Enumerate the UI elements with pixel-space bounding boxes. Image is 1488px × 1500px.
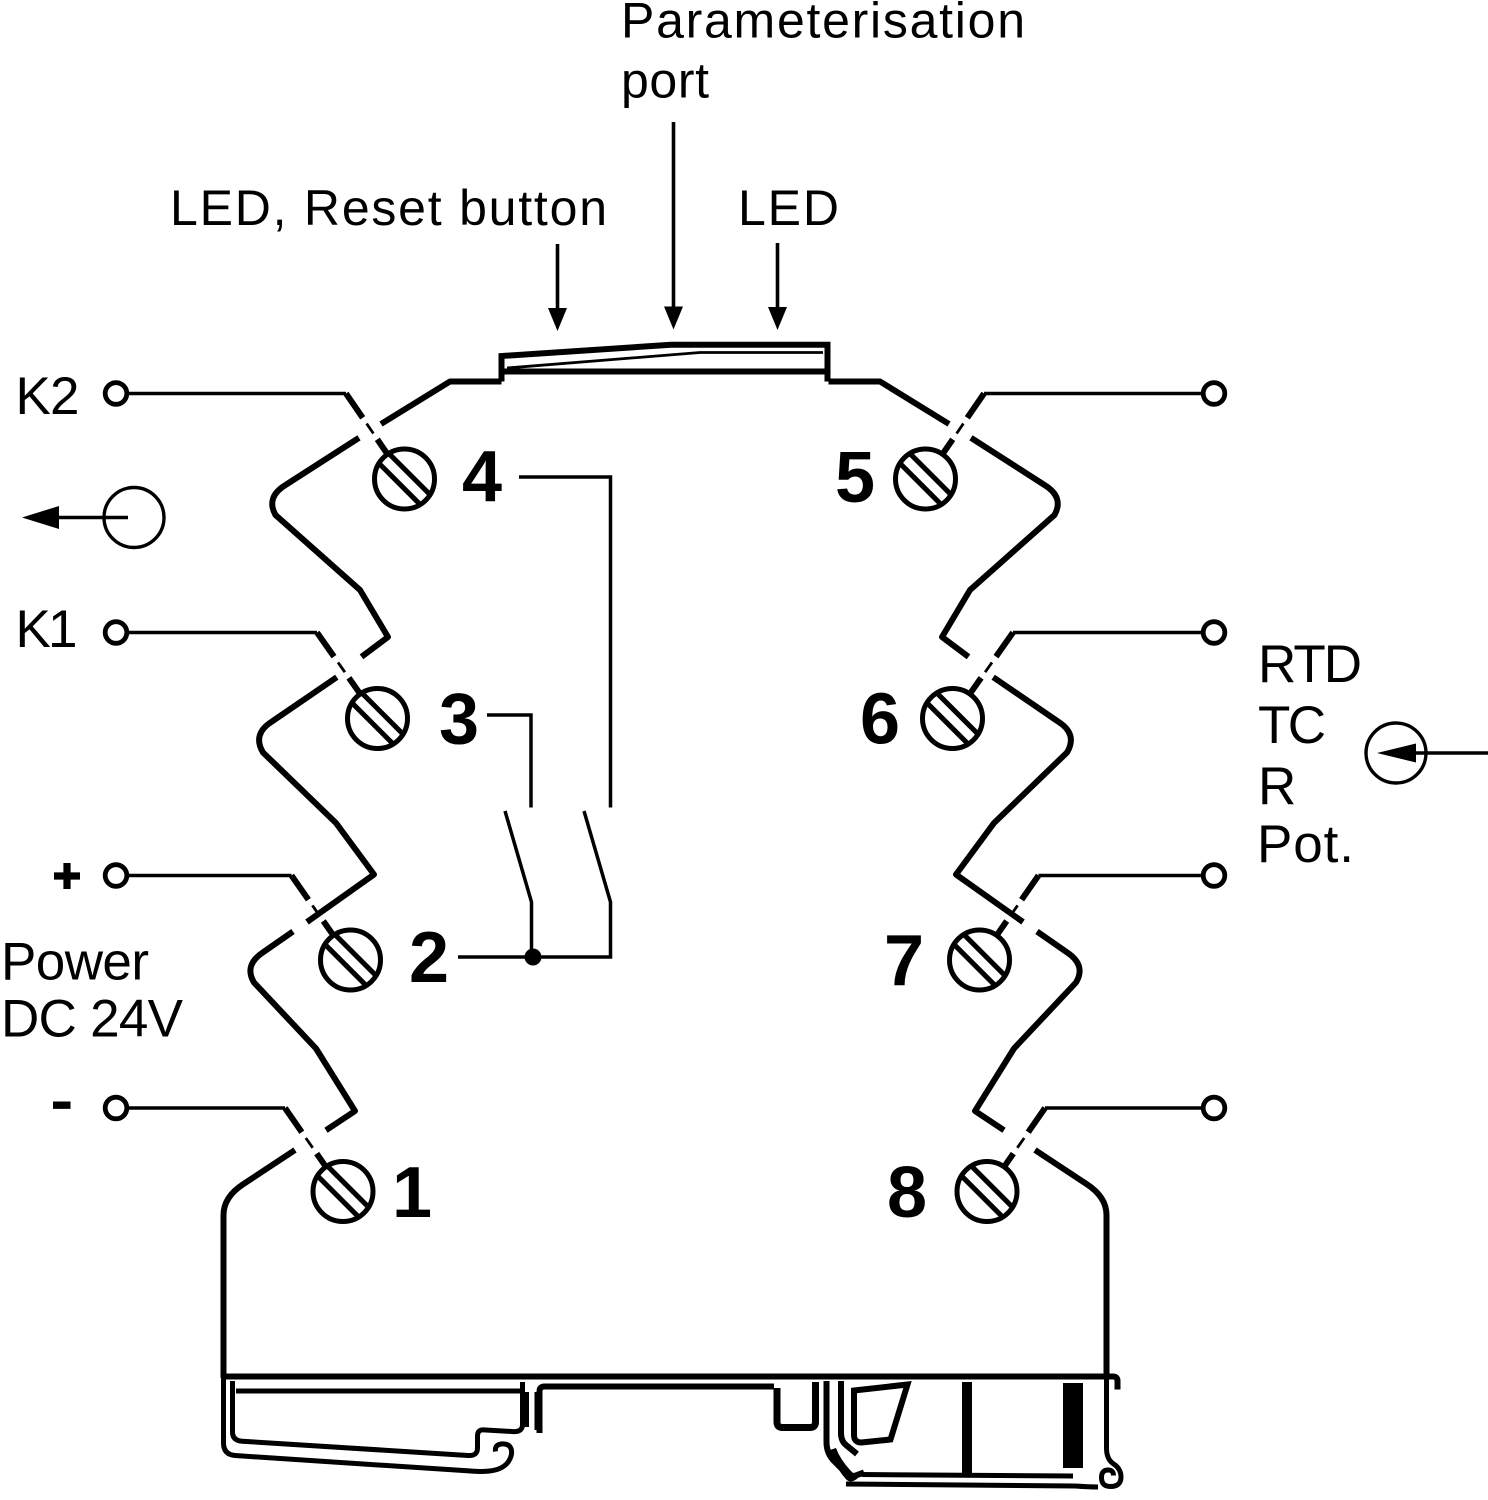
svg-text:DC 24V: DC 24V [1,990,184,1049]
DIN foot clip arm (channel + beak) [827,1381,865,1476]
terminal circle - [105,1097,127,1119]
svg-text:TC: TC [1258,696,1326,755]
DIN foot inner bottom line [862,1475,1073,1477]
DIN foot inner ledge line and small pocket [540,1387,775,1434]
DIN foot left outer contour with hook [224,1378,512,1471]
svg-text:4: 4 [462,437,502,517]
wire + (DC24V plus) [129,876,334,937]
screw terminal 4 [375,449,435,509]
case outline, left side [224,382,502,1379]
lid / display window on top of case [502,345,828,382]
DIN foot slanted pocket [854,1385,908,1443]
wire terminal 5 input [942,394,1201,456]
relay contact K2 (right switch blade) [533,811,611,957]
node 4 lead [519,477,611,808]
svg-text:5: 5 [835,438,875,518]
DIN foot channel wall thickening [522,1392,529,1427]
arrow from "LED, Reset button" to case top [548,244,567,331]
wire terminal 7 input [996,876,1201,937]
terminal circle right bottom [1203,1097,1225,1119]
screw terminal 7 [950,930,1010,990]
svg-text:LED, Reset button: LED, Reset button [170,180,607,236]
svg-text:Parameterisation: Parameterisation [621,0,1025,49]
svg-text:7: 7 [884,921,924,1001]
screw terminal 2 [321,930,381,990]
node 2 lead [458,955,533,959]
wire K2 [129,394,388,456]
svg-text:Pot.: Pot. [1257,815,1354,874]
DIN foot left inner contour [233,1381,523,1456]
svg-text:port: port [621,53,709,109]
svg-text:LED: LED [738,180,839,236]
screw terminal 8 [957,1162,1017,1222]
terminal circle K1 [105,622,127,644]
svg-text:6: 6 [860,680,900,760]
svg-text:Power: Power [1,933,149,992]
wire K1 [129,633,361,695]
case bottom line [224,1377,1118,1390]
input symbol (circle with left arrow), right side [1366,723,1488,783]
wire terminal 8 input [1004,1108,1202,1168]
label + [54,863,80,889]
svg-text:1: 1 [392,1153,432,1233]
screw terminal 6 [923,689,983,749]
terminal circle K2 [105,383,127,405]
label - (minus) [53,1101,71,1108]
screw terminal 3 [348,689,408,749]
svg-text:R: R [1258,757,1296,816]
arrow from "LED" to case top [768,243,787,330]
svg-text:RTD: RTD [1258,635,1362,694]
junction node 2 (dot) [525,949,542,966]
DIN foot outer bottom line [846,1484,1098,1487]
relay contact K1 (left switch blade) [505,811,532,957]
wire - (DC24V minus) [129,1108,327,1168]
DIN foot right wall and curl [1102,1374,1122,1487]
DIN foot divider 2 [1063,1383,1083,1468]
screw terminal 5 [896,449,956,509]
DIN foot divider 1 [962,1382,972,1473]
svg-text:8: 8 [887,1153,927,1233]
output symbol (circle with left arrow), left side [22,488,164,548]
svg-text:2: 2 [409,918,449,998]
node 3 lead [487,715,531,808]
screw terminal 1 [313,1162,373,1222]
svg-text:K1: K1 [16,600,78,659]
terminal circle + [105,865,127,887]
arrow from "Parameterisation port" to case top [664,122,683,330]
svg-text:K2: K2 [16,367,80,426]
wire terminal 6 input [969,633,1201,695]
svg-text:3: 3 [439,680,479,760]
terminal circle right top [1203,383,1225,405]
terminal circle right RTD b [1203,865,1225,887]
case outline, right side [829,382,1107,1379]
terminal circle right RTD a [1203,622,1225,644]
